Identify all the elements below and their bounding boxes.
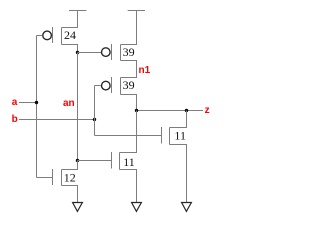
wire net b vertical — [94, 86, 96, 136]
ground symbol left — [73, 203, 83, 212]
pmos M39b gate bubble — [102, 81, 111, 90]
wire b input — [19, 119, 95, 121]
svg-text:24: 24 — [64, 28, 76, 42]
nmos M11b drain lead — [120, 111, 137, 153]
wire net z — [137, 110, 204, 112]
node a junction — [35, 101, 38, 104]
wire net n1 jog — [121, 61, 137, 78]
nmos M11a gate bar — [161, 127, 163, 144]
pmos M24 gate bubble — [43, 31, 52, 40]
nmos M12 drain lead — [62, 161, 78, 170]
svg-text:11: 11 — [123, 155, 135, 169]
svg-text:a: a — [12, 97, 18, 108]
ground symbol right — [182, 203, 192, 212]
nmos M12 gate wire — [37, 177, 53, 179]
pmos M24 channel — [61, 28, 63, 45]
svg-text:12: 12 — [64, 171, 76, 185]
nmos M11b gate wire — [78, 160, 112, 162]
wire vdd to M39a drain — [121, 11, 137, 45]
wire net a vertical — [36, 36, 38, 178]
node b junction — [93, 118, 96, 121]
nmos M11a channel — [169, 128, 171, 145]
nmos M11b channel — [119, 153, 121, 170]
nmos M12 source lead — [62, 186, 78, 203]
svg-text:n1: n1 — [139, 65, 151, 76]
pmos M39b gate wire — [95, 85, 102, 87]
svg-text:b: b — [12, 114, 18, 125]
wire net an vertical — [77, 53, 79, 161]
pmos M24 gate bar — [52, 27, 54, 43]
node z junction right — [185, 109, 188, 112]
nmos M11a source lead — [170, 145, 187, 203]
pmos M39a gate bar — [111, 44, 113, 60]
nmos M12 channel — [61, 170, 63, 186]
wire an to M39a gate — [78, 52, 102, 54]
nmos M12 gate bar — [52, 169, 54, 185]
pmos M24 gate wire — [37, 35, 43, 37]
nmos M11b gate bar — [111, 152, 113, 169]
svg-text:an: an — [63, 98, 75, 109]
wire a input — [19, 102, 37, 104]
node z junction left — [135, 109, 138, 112]
svg-text:z: z — [205, 105, 210, 116]
pmos M39b gate bar — [111, 77, 113, 93]
pmos M39a channel — [120, 45, 122, 61]
svg-text:11: 11 — [174, 129, 186, 143]
node an junction top — [76, 51, 79, 54]
pmos M39b channel — [120, 78, 122, 95]
nmos M11a drain lead — [170, 111, 187, 128]
vdd rail left — [69, 10, 86, 12]
pmos M24 source lead — [62, 45, 78, 53]
vdd rail right — [128, 10, 145, 12]
svg-text:39: 39 — [123, 78, 135, 92]
svg-text:39: 39 — [123, 45, 135, 59]
wire b to M11a gate — [95, 135, 162, 137]
nmos M11b source lead — [120, 170, 137, 203]
ground symbol middle — [132, 203, 142, 212]
wire vdd to M24 drain — [62, 11, 78, 28]
node an junction bottom — [76, 159, 79, 162]
pmos M39a gate bubble — [102, 48, 111, 57]
pmos M39b source lead to z — [121, 95, 137, 111]
